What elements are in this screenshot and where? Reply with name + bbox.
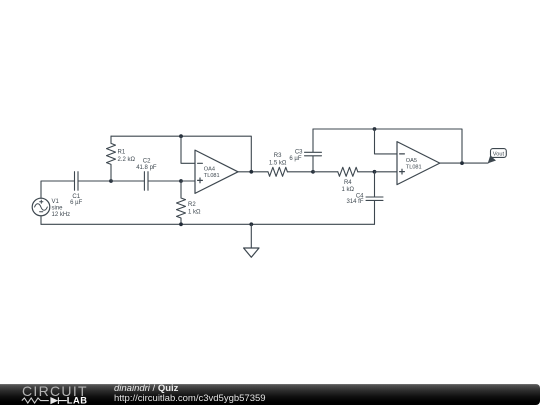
wire V1 bottom bbox=[40, 216, 42, 225]
svg-text:OA5: OA5 bbox=[406, 158, 417, 164]
footer bar bbox=[0, 384, 540, 405]
wire node C to R4 bbox=[313, 171, 338, 173]
svg-text:12 kHz: 12 kHz bbox=[52, 212, 71, 218]
wire node B to OA4 non-inverting input bbox=[181, 180, 195, 182]
node D junction bbox=[373, 170, 377, 174]
attribution line 2 bbox=[114, 394, 266, 404]
node A junction bbox=[109, 179, 113, 183]
svg-text:1.5 kΩ: 1.5 kΩ bbox=[269, 160, 287, 166]
wire to OA4 inverting input bbox=[181, 136, 195, 163]
svg-text:2.2 kΩ: 2.2 kΩ bbox=[118, 157, 136, 163]
svg-text:Vout: Vout bbox=[493, 151, 505, 157]
resistor R2 bbox=[177, 181, 186, 224]
wire node A to C2 bbox=[111, 180, 144, 182]
resistor R4 bbox=[338, 167, 358, 176]
wire OA4 output bbox=[238, 171, 268, 173]
wire V1 top to C1 bbox=[41, 181, 74, 198]
junction R2 bottom bbox=[179, 222, 183, 226]
node B junction bbox=[179, 179, 183, 183]
resistor R3 bbox=[268, 167, 287, 176]
resistor R1 bbox=[107, 136, 116, 181]
CircuitLab logo bbox=[0, 384, 110, 405]
junction at OA5 inverting drop bbox=[373, 127, 377, 131]
wire OA5 feedback top bbox=[313, 129, 462, 163]
wire R4 to node D bbox=[358, 171, 375, 173]
svg-text:314 fF: 314 fF bbox=[346, 199, 363, 205]
svg-text:OA4: OA4 bbox=[204, 167, 215, 173]
capacitor C1 bbox=[75, 172, 79, 191]
op-amp OA4 bbox=[195, 150, 238, 193]
junction ground tap bbox=[249, 222, 253, 226]
svg-text:R4: R4 bbox=[344, 180, 352, 186]
wire R3 to node C bbox=[288, 171, 314, 173]
wire node D to OA5 non-inverting input bbox=[375, 171, 398, 173]
svg-text:LAB: LAB bbox=[67, 396, 88, 405]
svg-text:TL081: TL081 bbox=[406, 165, 422, 171]
capacitor C3 bbox=[305, 129, 322, 172]
wire OA5 output bbox=[440, 162, 488, 164]
junction OA5 output/feedback bbox=[460, 161, 464, 165]
wire OA4 feedback top bbox=[111, 136, 251, 172]
capacitor C4 bbox=[366, 172, 383, 225]
svg-text:1 kΩ: 1 kΩ bbox=[188, 210, 201, 216]
junction OA4 output/feedback bbox=[249, 170, 253, 174]
wire to OA5 inverting input bbox=[375, 129, 398, 154]
svg-text:C3: C3 bbox=[295, 150, 303, 156]
node C junction bbox=[311, 170, 315, 174]
wire C1 to node A bbox=[78, 180, 111, 182]
svg-text:R2: R2 bbox=[188, 202, 196, 208]
op-amp OA5 bbox=[397, 142, 440, 185]
svg-text:1 kΩ: 1 kΩ bbox=[342, 187, 355, 193]
wire C2 to node B bbox=[148, 180, 181, 182]
junction at inverting drop bbox=[179, 134, 183, 138]
svg-text:V1: V1 bbox=[52, 199, 60, 205]
svg-text:6 µF: 6 µF bbox=[289, 156, 301, 162]
svg-text:R1: R1 bbox=[118, 150, 126, 156]
svg-text:R3: R3 bbox=[274, 153, 282, 159]
node flag Vout bbox=[488, 149, 507, 164]
svg-text:41.8 pF: 41.8 pF bbox=[136, 165, 157, 171]
svg-text:6 µF: 6 µF bbox=[70, 200, 82, 206]
svg-text:C1: C1 bbox=[72, 194, 80, 200]
svg-text:TL081: TL081 bbox=[204, 173, 220, 179]
voltage source V1 bbox=[32, 198, 50, 216]
attribution line 1 bbox=[114, 384, 178, 394]
svg-text:sine: sine bbox=[52, 206, 64, 212]
ground bbox=[244, 224, 259, 257]
capacitor C2 bbox=[144, 172, 148, 191]
svg-text:C2: C2 bbox=[143, 158, 151, 164]
wire ground rail bbox=[41, 223, 375, 225]
